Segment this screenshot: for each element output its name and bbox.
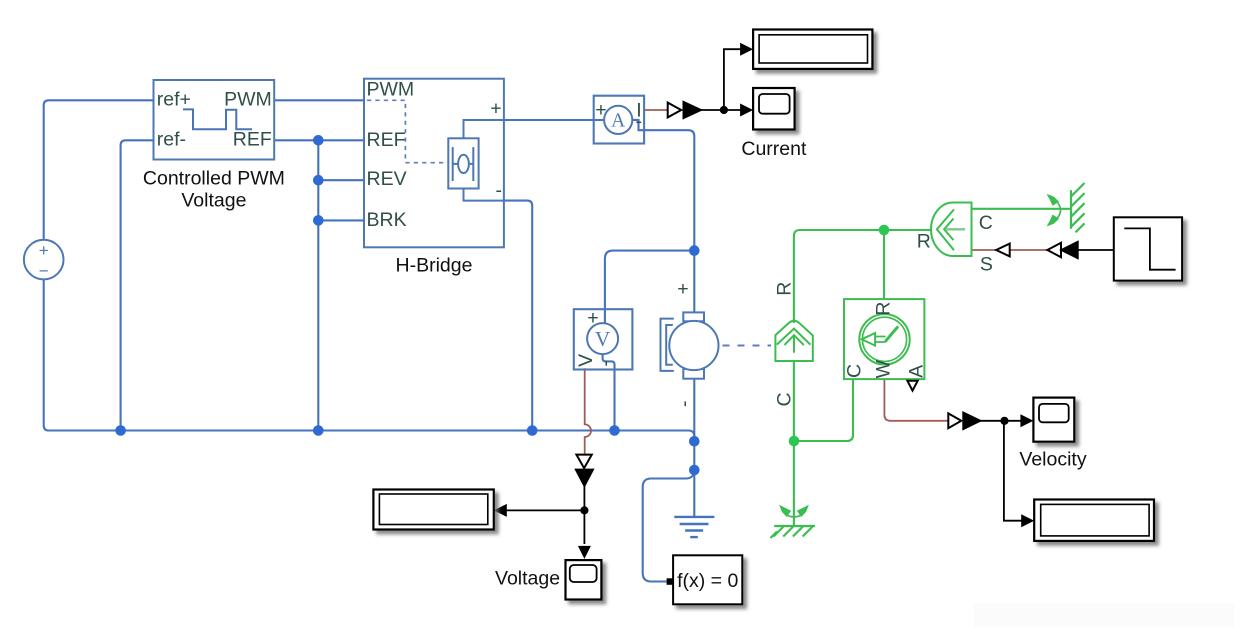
wire branch up to current display <box>724 49 742 110</box>
wire down to voltage scope <box>583 510 585 544</box>
svg-text:+: + <box>39 241 49 260</box>
step block <box>1114 217 1182 280</box>
svg-text:REV: REV <box>367 168 407 190</box>
wire PWM signal <box>274 99 364 101</box>
watermark strip <box>974 603 1234 627</box>
rotational reference (right wall) <box>1071 183 1085 232</box>
label Controlled PWM Voltage <box>143 167 285 211</box>
svg-text:PWM: PWM <box>224 89 272 111</box>
junction mechanical R node <box>879 225 890 236</box>
junction bus / motor - node <box>689 436 700 447</box>
svg-text:C: C <box>774 392 796 406</box>
arrowhead into current scope <box>740 104 753 117</box>
wire step converter to torque source S <box>972 249 1048 251</box>
display (current) <box>753 30 872 69</box>
inertia block <box>775 321 812 361</box>
signal arrowheads (filled black) <box>494 43 1034 559</box>
junction REF branch <box>313 135 324 146</box>
dc motor <box>669 312 718 378</box>
wire motion sensor W to converter <box>884 379 949 421</box>
Controlled PWM Voltage block <box>154 80 275 160</box>
wire ref- to bus <box>121 140 154 430</box>
solver port square <box>667 578 674 585</box>
junction dots (black) <box>580 106 1008 515</box>
junction H-bridge - / bus <box>527 425 538 436</box>
svg-text:+: + <box>587 307 598 329</box>
svg-text:+: + <box>595 99 606 121</box>
svg-text:REF: REF <box>233 128 272 150</box>
svg-text:R: R <box>774 282 796 296</box>
svg-text:Velocity: Velocity <box>1019 449 1086 471</box>
dashed control path <box>367 100 448 162</box>
PS-Simulink converter (velocity) <box>948 413 980 429</box>
wire torque source C to rotational reference <box>972 208 1072 210</box>
svg-text:H-Bridge: H-Bridge <box>396 255 473 277</box>
arrowhead into voltage scope (pointing down) <box>578 546 591 559</box>
svg-text:A: A <box>611 111 625 132</box>
scope Current <box>753 88 795 130</box>
svg-text:+: + <box>490 98 501 120</box>
wire to current scope <box>724 109 742 111</box>
wire step to converter <box>1078 249 1114 251</box>
display (velocity) <box>1034 500 1154 541</box>
svg-text:W: W <box>873 359 895 378</box>
arrowhead into voltage display (pointing left) <box>494 504 507 517</box>
svg-text:C: C <box>843 364 865 378</box>
electrical reference <box>674 517 714 537</box>
wire H-bridge + to current sensor <box>504 119 604 121</box>
junction dots (green) <box>789 225 890 447</box>
scope Voltage <box>566 560 602 599</box>
junction solver branch node <box>689 465 700 476</box>
junction voltage sensor - / bus <box>609 425 620 436</box>
junction voltage signal <box>580 506 588 514</box>
svg-text:C: C <box>979 212 993 234</box>
svg-text:-: - <box>495 180 502 202</box>
wire REV branch <box>318 140 364 430</box>
svg-text:R: R <box>917 231 931 253</box>
wire converter to current junction <box>701 109 724 111</box>
ideal torque source <box>931 203 971 257</box>
svg-text:-: - <box>674 400 696 407</box>
wire voltage sensor - to bus <box>603 354 615 430</box>
junction mechanical C node <box>789 436 800 447</box>
scope Velocity <box>1033 398 1074 442</box>
svg-text:REF: REF <box>367 129 406 151</box>
dc voltage source <box>24 240 64 280</box>
svg-text:V: V <box>575 354 597 367</box>
wire inertia R to torque source R <box>794 230 932 323</box>
wire branch down to velocity display <box>1004 421 1022 521</box>
unconnected port A triangle <box>907 381 917 391</box>
sensor needle <box>862 327 898 345</box>
current sensor block <box>594 96 644 144</box>
junction dots (blue) <box>115 135 699 475</box>
h-bridge inner icon <box>448 120 504 201</box>
svg-text:BRK: BRK <box>367 209 407 231</box>
H-Bridge block <box>364 79 504 248</box>
wire voltage sensor V down with hop over bus <box>585 368 591 454</box>
wire voltage converter down to junction <box>583 486 585 511</box>
pwm waveform icon <box>183 109 252 129</box>
wire motor - to electrical reference <box>693 379 695 517</box>
motor stator bracket <box>661 319 674 371</box>
wire junction to motion sensor R <box>883 230 885 299</box>
junction BRK branch <box>313 215 324 226</box>
wire motion sensor C down-left <box>794 379 853 441</box>
svg-text:f(x) = 0: f(x) = 0 <box>677 570 738 592</box>
svg-text:A: A <box>906 365 928 378</box>
wire to velocity scope <box>1004 420 1022 422</box>
wire to voltage display (left) <box>507 509 585 511</box>
rotational reference (bottom wall) <box>771 526 816 538</box>
wire ref+ to source top <box>44 100 154 240</box>
svg-text:−: − <box>39 262 49 281</box>
wire branch to voltage sensor + <box>605 251 694 324</box>
junction ref- / bus <box>115 425 126 436</box>
PS-Simulink converter (current) <box>668 102 701 118</box>
junction REF chain / bus <box>313 425 324 436</box>
svg-text:Voltage: Voltage <box>495 567 560 589</box>
svg-text:Current: Current <box>741 138 807 160</box>
svg-text:-: - <box>595 360 617 367</box>
arrowhead into velocity display <box>1021 514 1034 527</box>
junction velocity signal <box>1000 417 1008 425</box>
ideal rotational motion sensor block <box>844 299 924 379</box>
svg-text:Controlled PWM: Controlled PWM <box>143 167 285 189</box>
arrowhead into current display <box>740 43 753 56</box>
svg-text:+: + <box>677 278 688 300</box>
svg-text:ref-: ref- <box>157 128 186 150</box>
wire to solver configuration <box>643 470 695 582</box>
svg-text:ref+: ref+ <box>157 89 191 111</box>
svg-text:Voltage: Voltage <box>181 190 246 212</box>
wire current sensor - to motor + <box>632 120 694 313</box>
voltage sensor block <box>574 309 633 369</box>
svg-text:R: R <box>873 302 895 316</box>
arrowhead into velocity scope <box>1020 414 1033 427</box>
Simulink-PS converter (step to torque, pointing left) <box>1047 242 1077 258</box>
wire velocity converter to junction <box>979 420 1004 422</box>
svg-text:V: V <box>595 327 610 351</box>
junction current signal <box>720 106 728 114</box>
curved arrow (bottom wall) <box>785 514 803 517</box>
PS-Simulink converter (voltage, vertical) <box>576 455 593 486</box>
wire source bottom to ground bus <box>44 279 695 441</box>
PS line arrowhead near S port <box>996 244 1010 257</box>
svg-text:S: S <box>980 254 993 276</box>
display (voltage) <box>373 490 493 530</box>
svg-text:PWM: PWM <box>367 79 415 101</box>
junction motor + node <box>689 245 700 256</box>
curved arrow (right wall) <box>1058 203 1061 218</box>
wire REF <box>274 139 364 141</box>
wire inertia C to rotational reference <box>793 361 795 526</box>
svg-text:-: - <box>635 111 642 133</box>
wire current sensor I to converter <box>644 109 668 111</box>
solver configuration f(x)=0 <box>673 555 742 604</box>
dashed shaft link motor to inertia <box>723 345 772 347</box>
wire H-bridge - down to bus <box>504 201 532 431</box>
junction REV branch <box>313 175 324 186</box>
